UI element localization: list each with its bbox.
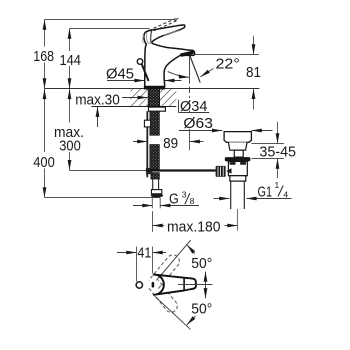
dimension Ø63 (179, 129, 273, 133)
leader arrow for 22° (200, 69, 213, 77)
drain tailpipe extension line (237, 209, 239, 231)
drain neck knob (234, 150, 243, 157)
svg-text:22°: 22° (216, 55, 240, 72)
dimension line 168 (43, 20, 47, 89)
shank short section under rod (151, 173, 159, 179)
pop-up horizontal rod to drain (147, 169, 216, 171)
drain neck (228, 142, 247, 150)
dimension G3/8 (133, 198, 199, 208)
dimension line max.300 (68, 89, 72, 171)
svg-text:81: 81 (246, 64, 261, 81)
handle top view: dashed rotated position up (149, 255, 180, 289)
svg-text:max.30: max.30 (75, 91, 120, 108)
svg-text:50°: 50° (191, 255, 212, 272)
svg-text:8: 8 (190, 196, 195, 206)
wire: extension line top 144 (70, 28, 150, 30)
handle top view: 50° leg up (157, 240, 191, 280)
handle centerline (178, 284, 213, 286)
countertop hatching right of shank (160, 89, 177, 106)
dimension line 400 (43, 89, 47, 198)
label 41 (137, 244, 151, 261)
dimension 81 (252, 36, 256, 110)
drain pop-up cap (224, 132, 251, 143)
faucet handle inner sketch lines (146, 33, 151, 44)
G3/8 connector flare (151, 193, 163, 197)
label 168 (33, 47, 55, 65)
svg-text:300: 300 (59, 137, 81, 154)
G3/8 connector nut (151, 190, 161, 194)
label Ø63 (183, 114, 214, 132)
svg-text:Ø63: Ø63 (183, 115, 213, 132)
faucet pop-up pull knob (137, 59, 143, 65)
node: countertop surface line (45, 88, 260, 90)
lower rod joint (146, 168, 152, 174)
drain body slots (230, 162, 236, 165)
dimension 89 (133, 140, 204, 144)
svg-text:1: 1 (275, 180, 280, 190)
label Ø34 with leader (179, 98, 210, 115)
handle top view: dashed rotated position down (149, 281, 177, 313)
lever slot (152, 282, 155, 288)
handle top view: solid lever (154, 275, 196, 295)
drain tailpipe walls (231, 181, 245, 209)
50° bottom leader arrow (187, 316, 196, 325)
mounting washer under countertop (149, 107, 166, 111)
faucet body with spout and lever (C-profile) (144, 25, 195, 87)
faucet handle boss inner line (151, 30, 152, 42)
faucet handle raised position (dashed) (149, 19, 177, 31)
svg-text:41: 41 (137, 244, 151, 261)
svg-text:Ø45: Ø45 (106, 65, 134, 82)
wire: 400 bottom reference line (45, 197, 161, 199)
svg-text:4: 4 (283, 189, 288, 199)
0° reference line with arrows (204, 272, 208, 299)
faucet pull knob rod (142, 64, 149, 81)
threaded shank through countertop (148, 89, 159, 107)
pop-up pull rod (vertical) (146, 111, 148, 177)
pull rod clamp (144, 120, 150, 127)
svg-text:35-45: 35-45 (259, 144, 296, 161)
handle top view: 50° leg down (155, 296, 191, 329)
countertop hatching left of shank (130, 89, 148, 106)
drain flange (dark band) (225, 157, 251, 161)
svg-text:max.180: max.180 (167, 218, 221, 235)
dimension line 144 (68, 29, 72, 89)
svg-text:89: 89 (163, 135, 178, 152)
label max. 300 (53, 123, 86, 155)
dimension G1 1/4 (214, 197, 292, 201)
drain ball-joint wedge (226, 168, 231, 174)
faucet: 22° angle arc with arrow (168, 72, 189, 79)
dimension 35-45 (252, 122, 284, 178)
faucet lever underside double line (164, 30, 182, 35)
svg-text:3: 3 (182, 190, 187, 200)
svg-text:400: 400 (33, 154, 55, 171)
threaded shank upper section (150, 111, 159, 135)
label G1 1/4 (258, 180, 289, 200)
wire: max.300 bottom reference line (70, 170, 147, 172)
faucet: aerator centerline (dashed axis) (189, 56, 191, 151)
svg-text:G1: G1 (258, 183, 273, 200)
wire: extension line top 168 (45, 19, 175, 21)
svg-text:50°: 50° (191, 301, 212, 318)
node: countertop bottom line (91, 106, 176, 108)
drain body (228, 161, 247, 175)
flexible hose tube (153, 179, 159, 190)
threaded shank lower section (150, 145, 159, 170)
tick at dashed handle tip (174, 18, 178, 21)
svg-text:144: 144 (59, 52, 81, 69)
faucet: 81 top reference line at spout outlet (193, 54, 258, 56)
dimension 41 (117, 247, 166, 282)
drain ball-joint knob (216, 166, 226, 177)
label G3/8 (169, 190, 195, 208)
label 144 (59, 51, 83, 69)
lever tip separation line (183, 278, 185, 291)
faucet: 22° slanted stream line (190, 56, 200, 83)
dimension Ø45 (107, 79, 182, 83)
faucet base bottom band (144, 86, 165, 89)
label 400 (32, 152, 56, 171)
svg-text:G: G (169, 191, 179, 208)
50° top leader arrow (187, 245, 195, 254)
small pivot circle (136, 282, 142, 288)
dimension max.180 (153, 211, 238, 232)
drain ball-joint knob knurling (218, 167, 223, 177)
svg-text:168: 168 (33, 48, 54, 65)
drain lock ring (230, 176, 246, 181)
dimension arrow max.30 (96, 96, 148, 127)
faucet aerator (dark band at spout tip) (180, 50, 194, 57)
